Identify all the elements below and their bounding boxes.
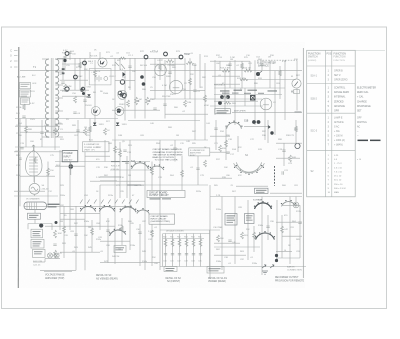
resistor R5 — [64, 84, 67, 91]
wire — [60, 218, 85, 220]
capacitor C21 — [128, 66, 131, 67]
svg-text:S1C-3: S1C-3 — [311, 131, 318, 133]
diode CR3 — [87, 94, 90, 97]
wire — [40, 269, 76, 271]
wire — [42, 58, 49, 60]
wire — [240, 79, 296, 81]
wire — [121, 64, 125, 69]
resistor R48 — [63, 226, 66, 233]
wire — [296, 60, 298, 79]
resistor R24 — [289, 155, 292, 162]
resistor R34 — [241, 232, 244, 239]
rotary switch wafer S1A — [131, 161, 149, 169]
wire — [134, 58, 136, 118]
resistor R7 — [146, 97, 149, 105]
wire — [204, 63, 206, 140]
resistor R11 — [186, 62, 194, 65]
rotary switch wafer S3A — [80, 205, 96, 211]
wire — [200, 234, 202, 267]
wire — [62, 63, 80, 65]
label S3 NOTE — [150, 198, 161, 199]
wire — [174, 58, 176, 95]
capacitor C18 — [228, 240, 231, 241]
wire — [194, 63, 196, 140]
junction — [140, 75, 144, 79]
table column line 2 — [331, 50, 333, 197]
table dark note dash 2 — [370, 140, 381, 142]
capacitor C13 — [171, 254, 174, 255]
label 10 MA — [295, 112, 302, 113]
label RED-BLK — [256, 190, 267, 191]
resistor R36 — [119, 57, 126, 59]
wire — [144, 60, 146, 119]
rotary switch wafer S2A — [236, 162, 263, 173]
rotary switch wafer S1D — [281, 200, 296, 206]
wire — [261, 60, 263, 70]
resistor R9 — [184, 100, 187, 107]
wire — [89, 119, 91, 142]
wire — [210, 135, 230, 137]
label text — [162, 198, 171, 199]
junction — [252, 120, 256, 124]
wire — [34, 210, 36, 214]
junction — [142, 82, 146, 86]
resistor R25 — [54, 230, 57, 238]
capacitor C32 — [106, 230, 109, 231]
resistor R14 — [244, 69, 252, 72]
resistor R32 — [199, 239, 202, 247]
label text — [244, 93, 251, 94]
ground symbol — [262, 271, 268, 274]
wire — [165, 234, 167, 267]
wire — [181, 156, 183, 190]
svg-text:LAMP E: LAMP E — [334, 117, 343, 120]
wire — [289, 197, 291, 265]
wire — [62, 95, 88, 97]
rotary switch wafer S3B — [99, 205, 115, 211]
note box OUTPUT CIRCUIT — [147, 191, 185, 198]
wire — [60, 89, 89, 91]
wire — [244, 125, 268, 127]
wire — [77, 120, 79, 150]
wire — [79, 58, 81, 90]
wire — [119, 142, 121, 198]
wire — [15, 146, 60, 148]
wire — [99, 52, 101, 58]
capacitor C9 — [226, 152, 229, 153]
wire — [55, 110, 63, 112]
svg-text:1 - 75 V: 1 - 75 V — [334, 163, 342, 165]
svg-text:OPER ZERO: OPER ZERO — [334, 80, 348, 82]
note box ILLUMINATION AMPLIFIER — [189, 148, 210, 156]
label C9 .02 — [248, 90, 258, 91]
label text — [222, 93, 230, 94]
svg-text:SET Z: SET Z — [334, 75, 341, 77]
resistor R2 — [64, 55, 67, 61]
wire — [186, 234, 188, 267]
lamp DS6 — [54, 253, 59, 258]
note box ILLUMINATION POWER SUPPLY — [83, 142, 110, 152]
resistor R41 — [25, 126, 28, 133]
wire — [45, 225, 115, 227]
jack J1 — [144, 55, 148, 59]
transformer T1 primary winding — [45, 59, 49, 137]
wire — [276, 251, 292, 253]
wire — [197, 156, 199, 185]
wire — [55, 136, 63, 138]
junction — [80, 88, 84, 92]
wire — [295, 197, 297, 203]
capacitor C6 — [193, 90, 196, 91]
transistor Q1 — [98, 58, 107, 67]
wire — [55, 161, 150, 163]
tube V3 — [260, 98, 272, 110]
dashed feedback line — [257, 59, 297, 61]
resistor R39 — [241, 63, 244, 69]
wire — [121, 218, 123, 245]
wire — [276, 200, 278, 262]
capacitor C8 — [123, 150, 126, 151]
ion chamber housing — [24, 202, 47, 210]
wire — [60, 251, 100, 253]
wire — [172, 234, 174, 267]
tube V2 — [169, 80, 182, 93]
svg-text:POS: POS — [327, 53, 332, 55]
photocell PC1 anode arrow — [32, 145, 35, 151]
wire — [224, 71, 226, 110]
capacitor C10 — [282, 171, 283, 174]
resistor R21 — [84, 128, 87, 135]
label text — [246, 217, 252, 220]
resistor R17 — [240, 78, 248, 80]
capacitor C19 — [68, 52, 71, 53]
photocell PC1 dynodes — [29, 157, 38, 172]
svg-text:50 x 10: 50 x 10 — [334, 180, 342, 182]
label text — [22, 99, 29, 102]
svg-text:+ 1000 (A): + 1000 (A) — [334, 139, 345, 142]
wire — [225, 126, 227, 160]
wire — [45, 258, 60, 260]
label text — [217, 110, 229, 111]
caption DETAIL S3 — [96, 274, 118, 280]
wire — [100, 262, 160, 264]
wire — [44, 271, 72, 273]
diode CR1 — [93, 123, 96, 126]
arrow contacts — [262, 265, 274, 268]
label text — [227, 221, 234, 224]
rotary switch wafer S1 — [150, 164, 165, 170]
wire — [20, 70, 302, 72]
svg-text:7.5 x 10: 7.5 x 10 — [334, 171, 343, 173]
svg-text:OPER B: OPER B — [334, 71, 343, 73]
label text — [227, 215, 236, 216]
label text — [33, 245, 40, 248]
revision tick — [14, 55, 18, 57]
resistor R6 — [135, 97, 138, 105]
terminal — [226, 95, 230, 99]
neon lamp NE2 — [81, 87, 84, 90]
wire — [160, 229, 220, 231]
potentiometer R15 arrow — [258, 71, 262, 74]
wire — [236, 185, 268, 187]
wire — [55, 71, 63, 73]
label text — [22, 101, 28, 104]
capacitor C12 — [164, 254, 167, 255]
rotary contact — [122, 93, 126, 97]
small can C20 — [295, 143, 300, 148]
label 601P PHOTOTUBE — [48, 204, 60, 205]
transformer T1 core — [51, 58, 53, 138]
capacitor C29 — [214, 128, 217, 129]
wire — [295, 120, 297, 143]
label text — [33, 242, 41, 245]
svg-text:(LOGIC): (LOGIC) — [308, 60, 317, 62]
label text — [258, 93, 264, 94]
neon lamp NE1 — [74, 75, 78, 79]
capacitor C16 — [192, 254, 195, 255]
wire — [19, 119, 21, 207]
capacitor C20 — [61, 82, 64, 83]
wire — [57, 57, 183, 59]
potentiometer wiper of R6 — [137, 100, 139, 102]
wire — [302, 48, 304, 278]
transformer T1 secondary winding — [55, 59, 59, 137]
wire — [232, 111, 302, 113]
label R22 1M — [234, 90, 243, 91]
page left edge shadow — [17, 47, 20, 288]
resistor R42 — [54, 128, 57, 135]
svg-text:+ (MAN): + (MAN) — [334, 144, 343, 147]
wire — [110, 169, 152, 171]
revision tick — [14, 66, 18, 68]
wire — [214, 60, 216, 115]
photo tube box — [225, 214, 237, 226]
rotary contact — [120, 80, 124, 84]
wire — [33, 147, 35, 182]
wire — [126, 156, 128, 198]
transistor Q3 — [91, 107, 100, 116]
resistor R1 — [23, 104, 26, 110]
label text — [34, 251, 43, 252]
terminal block TB2 — [164, 267, 177, 272]
wire — [253, 226, 255, 252]
resistor R19 — [114, 146, 117, 153]
caption RECORDER OUTPUT — [275, 277, 305, 282]
svg-text:FUNCTION: FUNCTION — [334, 52, 347, 55]
jack J1b — [164, 52, 168, 56]
wire — [34, 194, 36, 196]
junction — [275, 259, 278, 262]
wire — [114, 140, 116, 264]
resistor R35 — [79, 62, 82, 68]
capacitor C35 — [298, 222, 301, 223]
wire — [60, 213, 100, 215]
wire — [163, 238, 204, 240]
label PUSH — [29, 217, 37, 218]
capacitor C1 — [22, 116, 25, 117]
ion chamber grid lines — [27, 203, 37, 209]
capacitor C5 — [163, 104, 166, 105]
wire — [210, 196, 302, 198]
svg-text:ZEROED: ZEROED — [334, 101, 344, 103]
wire — [14, 151, 62, 153]
wire — [234, 60, 236, 125]
wire — [15, 118, 118, 120]
pilot lamp DS2 — [83, 61, 87, 65]
svg-text:ELECTROMETER: ELECTROMETER — [357, 88, 376, 90]
table top extension — [355, 49, 385, 51]
wire — [115, 79, 135, 81]
resistor R30 — [185, 239, 188, 247]
wire — [284, 60, 286, 120]
wire — [84, 58, 86, 118]
reset switch box — [28, 213, 41, 219]
resistor R54 — [119, 150, 122, 157]
resistor R23 — [219, 145, 222, 152]
resistor R50 — [121, 226, 124, 232]
svg-text:250 x 10: 250 x 10 — [334, 184, 343, 186]
wire — [276, 157, 300, 159]
note text CIRCUIT BOARD — [153, 148, 183, 161]
diode CR1 — [123, 72, 126, 77]
wire — [69, 52, 71, 60]
wire — [244, 88, 246, 106]
wire — [210, 151, 230, 153]
resistor R4 — [94, 70, 97, 77]
svg-text:25 x 10: 25 x 10 — [334, 176, 342, 178]
wire — [199, 54, 201, 88]
wire — [34, 176, 36, 183]
switch contact slashes — [80, 200, 139, 204]
wire — [189, 58, 191, 99]
wire — [214, 83, 240, 85]
wire — [162, 234, 164, 267]
wire — [270, 192, 302, 194]
svg-text:SWITCH: SWITCH — [308, 56, 318, 59]
wire — [276, 221, 302, 223]
label text — [166, 268, 175, 269]
wire — [283, 143, 285, 166]
wire — [151, 224, 153, 266]
wire — [150, 98, 262, 100]
label text — [21, 95, 28, 98]
wire — [28, 223, 52, 225]
wire — [112, 109, 160, 111]
svg-text:CONTROL: CONTROL — [334, 88, 346, 90]
table header underline — [307, 65, 356, 67]
wire — [159, 140, 161, 270]
svg-text:FUNCTION: FUNCTION — [334, 60, 346, 62]
note text ILLUMINATION AMPLIFIER — [190, 149, 205, 157]
junction — [55, 221, 58, 224]
wire — [114, 58, 116, 161]
capacitor C25 — [40, 132, 43, 133]
transistor Q4 — [115, 107, 124, 116]
paper scan grain — [19, 42, 305, 288]
resistor R29 — [178, 239, 181, 247]
wire — [27, 224, 29, 230]
capacitor C26 — [76, 130, 79, 131]
wire — [276, 142, 302, 144]
wire — [55, 58, 63, 60]
wire — [212, 75, 240, 77]
label text — [21, 93, 29, 96]
wire — [281, 215, 283, 258]
terminal board TB1 — [20, 83, 31, 105]
label text — [33, 234, 41, 237]
resistor R51 — [151, 230, 154, 237]
tube V1 — [155, 64, 167, 76]
capacitor C3 — [73, 112, 76, 113]
label R21 220K — [220, 90, 230, 91]
wire — [60, 79, 88, 81]
rotary contact — [118, 91, 122, 95]
wire — [62, 58, 64, 80]
diode CR5 — [268, 125, 271, 129]
resistor R37 — [159, 64, 162, 70]
label text — [34, 252, 42, 255]
caption S1 REAR — [208, 277, 227, 283]
wire — [214, 242, 240, 244]
label text — [209, 268, 221, 269]
wire — [100, 240, 130, 242]
capacitor C36 — [125, 162, 128, 163]
wire — [276, 257, 300, 259]
wire — [112, 139, 208, 141]
label RESET — [29, 215, 39, 216]
wire — [15, 125, 60, 127]
svg-text:AC: AC — [357, 126, 361, 129]
svg-text:INTERNAL: INTERNAL — [334, 96, 346, 99]
wire — [124, 71, 126, 121]
wire — [249, 61, 251, 70]
relay K1 box — [215, 109, 231, 114]
wire — [55, 165, 85, 167]
revision tick — [14, 50, 18, 52]
capacitor C30 — [282, 150, 285, 151]
label text — [21, 83, 30, 86]
label text — [33, 231, 41, 232]
diode stack CR6 — [62, 68, 65, 74]
wire — [150, 63, 185, 65]
relay K5 box — [245, 214, 255, 224]
wire — [104, 140, 106, 162]
capacitor C24 — [260, 64, 263, 65]
label text — [232, 93, 239, 94]
meter shunt box — [294, 90, 300, 94]
table row line g3 — [307, 150, 356, 152]
junction — [39, 223, 43, 227]
terminal — [220, 95, 224, 99]
label text — [122, 161, 129, 162]
wire — [59, 150, 61, 230]
wire — [254, 60, 256, 125]
wire — [144, 162, 146, 271]
label GRN — [256, 192, 265, 193]
note text INPUT CIRCUIT — [151, 215, 171, 223]
junction — [69, 164, 74, 169]
wire — [85, 155, 110, 157]
junction — [218, 101, 222, 105]
wire — [51, 224, 53, 231]
connector J2 box — [255, 188, 269, 193]
wire — [209, 185, 211, 278]
label text — [227, 218, 235, 219]
svg-text:S1A-1: S1A-1 — [311, 75, 318, 78]
rotary switch wafer S1E — [255, 231, 275, 240]
lamp ring DS5 — [65, 87, 69, 91]
capacitor C17 — [199, 254, 202, 255]
